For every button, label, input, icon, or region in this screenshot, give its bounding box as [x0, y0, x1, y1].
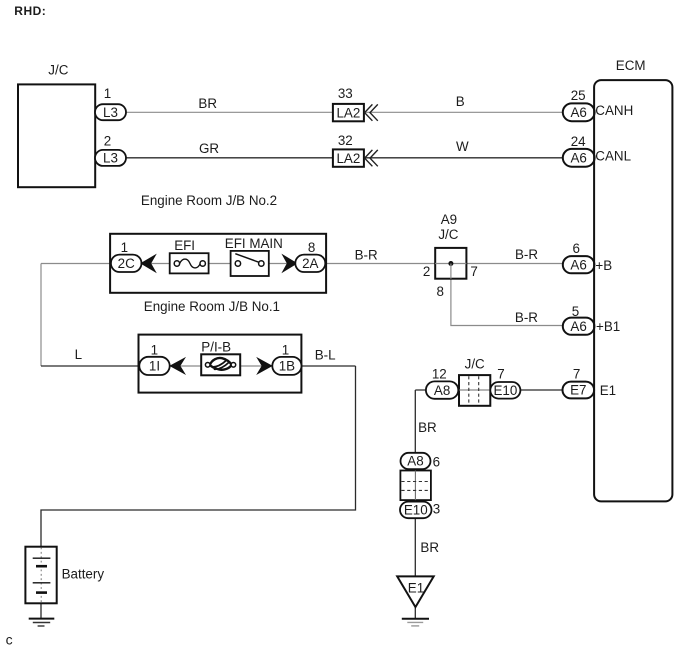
svg-text:E10: E10	[404, 503, 428, 518]
svg-text:2: 2	[104, 134, 111, 149]
svg-text:W: W	[456, 139, 469, 154]
svg-text:J/C: J/C	[48, 62, 68, 77]
svg-text:L3: L3	[103, 105, 118, 120]
svg-text:1: 1	[282, 342, 289, 357]
svg-text:6: 6	[572, 241, 579, 256]
svg-text:LA2: LA2	[336, 105, 360, 120]
svg-text:25: 25	[571, 88, 586, 103]
svg-text:B-R: B-R	[355, 248, 378, 263]
svg-text:5: 5	[572, 304, 579, 319]
svg-text:2C: 2C	[118, 256, 135, 271]
svg-text:Engine Room J/B No.2: Engine Room J/B No.2	[141, 193, 277, 208]
svg-text:L: L	[75, 347, 82, 362]
svg-text:BR: BR	[418, 420, 437, 435]
svg-text:ECM: ECM	[616, 58, 646, 73]
svg-text:7: 7	[573, 366, 580, 381]
svg-text:A6: A6	[571, 105, 587, 120]
svg-text:GR: GR	[199, 141, 219, 156]
svg-text:L3: L3	[103, 151, 118, 166]
svg-text:BR: BR	[420, 540, 439, 555]
svg-text:2: 2	[423, 264, 430, 279]
svg-text:A6: A6	[570, 257, 586, 272]
svg-text:A9: A9	[441, 212, 457, 227]
svg-text:7: 7	[497, 367, 504, 382]
svg-text:E1: E1	[600, 383, 616, 398]
svg-text:24: 24	[571, 134, 586, 149]
svg-text:A6: A6	[571, 151, 587, 166]
svg-text:E7: E7	[570, 383, 586, 398]
svg-text:+B1: +B1	[596, 319, 620, 334]
svg-text:1I: 1I	[149, 359, 160, 374]
svg-text:1: 1	[151, 342, 158, 357]
svg-text:1: 1	[104, 86, 111, 101]
svg-text:2A: 2A	[302, 256, 318, 271]
svg-text:7: 7	[470, 264, 477, 279]
svg-text:E10: E10	[493, 383, 517, 398]
svg-text:LA2: LA2	[336, 151, 360, 166]
svg-text:EFI: EFI	[174, 238, 195, 253]
svg-text:EFI MAIN: EFI MAIN	[225, 236, 283, 251]
svg-text:B-L: B-L	[315, 348, 336, 363]
svg-text:A8: A8	[407, 454, 423, 469]
svg-text:RHD:: RHD:	[14, 4, 46, 18]
svg-text:B: B	[456, 94, 465, 109]
svg-text:CANL: CANL	[595, 149, 631, 164]
svg-text:1B: 1B	[279, 359, 295, 374]
svg-text:+B: +B	[595, 258, 612, 273]
svg-text:33: 33	[338, 86, 353, 101]
svg-text:12: 12	[432, 367, 447, 382]
svg-text:A6: A6	[570, 319, 586, 334]
svg-text:B-R: B-R	[515, 310, 538, 325]
svg-text:8: 8	[436, 284, 443, 299]
svg-text:A8: A8	[434, 383, 450, 398]
svg-text:3: 3	[433, 502, 440, 517]
svg-text:8: 8	[308, 240, 315, 255]
svg-text:Battery: Battery	[62, 566, 105, 581]
svg-text:E1: E1	[408, 581, 424, 596]
svg-text:Engine Room J/B No.1: Engine Room J/B No.1	[144, 299, 280, 314]
svg-text:CANH: CANH	[595, 103, 633, 118]
svg-text:J/C: J/C	[465, 357, 485, 372]
svg-text:6: 6	[433, 454, 440, 469]
svg-text:P/I-B: P/I-B	[201, 340, 231, 355]
svg-text:B-R: B-R	[515, 247, 538, 262]
svg-text:1: 1	[121, 240, 128, 255]
svg-text:32: 32	[338, 133, 353, 148]
svg-text:J/C: J/C	[438, 227, 458, 242]
svg-text:c: c	[6, 632, 13, 648]
svg-text:BR: BR	[198, 96, 217, 111]
